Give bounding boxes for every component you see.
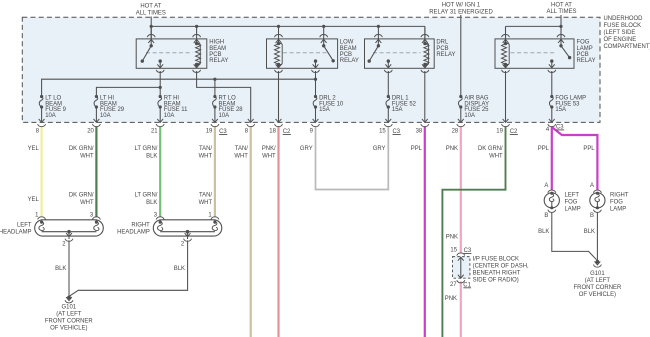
svg-text:19: 19 — [496, 129, 503, 135]
svg-text:UNDERHOOD: UNDERHOOD — [604, 16, 643, 22]
wire: DRL relay output drop to DRL 1 fuse — [387, 71, 389, 97]
svg-text:HOT AT: HOT AT — [140, 3, 161, 9]
connector pin 15 C3 at fuse block bottom — [379, 119, 401, 135]
svg-text:YEL: YEL — [28, 146, 40, 152]
wire DK GRN/WHT pin 19 C2 with jog (to page bottom) — [442, 126, 505, 337]
wire PNK/WHT pin 18 (to page bottom) — [277, 126, 279, 337]
svg-text:WHT: WHT — [489, 153, 503, 159]
label: left headlamp name — [0, 223, 32, 236]
svg-text:2: 2 — [181, 242, 184, 248]
svg-text:HEADLAMP: HEADLAMP — [0, 230, 32, 236]
label: DRL 2 fuse 10 value — [319, 95, 344, 113]
svg-text:PNK: PNK — [446, 234, 458, 240]
label: right fog lamp name — [610, 192, 629, 212]
wire: feed from HOT W/ IGN 1 down to air bag fuse — [460, 15, 462, 97]
svg-text:FRONT CORNER: FRONT CORNER — [45, 319, 93, 325]
label: wire color DK GRN/ WHT (upper row) at x=505.5 — [478, 146, 503, 159]
fuse DRL 1 fuse 52 — [386, 95, 390, 123]
svg-text:DK GRN/: DK GRN/ — [478, 146, 503, 152]
connector pin 8 at fuse block bottom — [36, 119, 46, 135]
junction dot bus / low beam relay coil — [277, 25, 280, 28]
relay fog lamp PCB relay — [495, 26, 574, 72]
wire: low beam feed rail (LT LO fuse / RT LO fuse / low beam relay output) — [42, 79, 316, 96]
svg-text:15A: 15A — [392, 107, 403, 113]
svg-text:(LEFT SIDE: (LEFT SIDE — [604, 30, 636, 36]
svg-text:LT GRN/: LT GRN/ — [135, 193, 158, 199]
connector pin 9 at fuse block bottom — [310, 119, 320, 135]
svg-text:10A: 10A — [464, 113, 475, 119]
svg-text:I/P FUSE BLOCK: I/P FUSE BLOCK — [473, 256, 519, 262]
label: wire color LT GRN/ BLK (lower row) at x=160.2 — [135, 193, 158, 206]
wire: feed from HOT AT ALL TIMES (right) to fog lamp relay — [560, 15, 562, 45]
wire TAN/WHT pin 8 (to page bottom) — [250, 126, 252, 337]
svg-text:WHT: WHT — [199, 200, 213, 206]
svg-text:PPL: PPL — [583, 146, 595, 152]
svg-text:BLK: BLK — [146, 200, 157, 206]
fuse RT HI BEAM fuse 11 — [158, 95, 162, 123]
junction dot bus at left feed — [150, 25, 153, 28]
label: RT LO BEAM fuse 28 value — [219, 95, 244, 119]
svg-text:10A: 10A — [100, 113, 111, 119]
svg-text:10A: 10A — [164, 113, 175, 119]
label: wire color PPL (upper row) at x=551.8 — [538, 146, 550, 152]
wire: bus drop to DRL relay coil — [424, 26, 426, 43]
svg-text:A: A — [544, 183, 548, 189]
ground G101 (left front corner) — [65, 296, 73, 303]
svg-text:(AT LEFT: (AT LEFT — [585, 278, 611, 284]
wire GRY pin 9 joined with GRY pin 15 — [316, 126, 389, 189]
junction dot low beam relay output / rail — [314, 78, 317, 81]
right headlamp — [153, 212, 222, 247]
svg-text:RELAY: RELAY — [577, 58, 596, 64]
svg-text:27: 27 — [450, 282, 457, 288]
wire: high beam relay coil return jog to pin 8 — [197, 71, 251, 122]
wire: high beam feed rail (LT HI fuse to RT HI drop) — [96, 87, 160, 96]
wire PNK below I/P fuse block (to page bottom) — [460, 281, 462, 337]
label: DRL PCB relay name — [436, 40, 455, 58]
right fog lamp — [590, 183, 605, 219]
svg-text:SIDE OF RADIO): SIDE OF RADIO) — [473, 278, 519, 284]
svg-text:LT GRN/: LT GRN/ — [135, 146, 158, 152]
fuse LT LO BEAM fuse 9 — [39, 95, 43, 123]
svg-text:RELAY: RELAY — [209, 58, 228, 64]
svg-text:PPL: PPL — [538, 146, 550, 152]
label: AIR BAG DISPLAY fuse 25 value — [464, 95, 489, 119]
fuse RT LO BEAM fuse 28 — [213, 95, 217, 123]
label: wire color DK GRN/ WHT (lower row) at x=96.4 — [69, 193, 94, 206]
label: DRL 1 fuse 52 value — [392, 95, 416, 113]
svg-text:BLK: BLK — [174, 266, 185, 272]
svg-text:38: 38 — [416, 129, 423, 135]
svg-text:TAN/: TAN/ — [199, 193, 212, 199]
wire: feed from HOT AT ALL TIMES (left) into fuse block — [150, 17, 152, 46]
svg-text:15: 15 — [450, 248, 457, 254]
svg-text:WHT: WHT — [234, 153, 248, 159]
svg-text:18: 18 — [269, 129, 276, 135]
svg-text:WHT: WHT — [80, 200, 94, 206]
wire BLK right fog lamp to G101 — [596, 212, 598, 261]
svg-text:LAMP: LAMP — [610, 207, 626, 213]
wire: fog relay bus segment — [506, 25, 562, 27]
wire TAN/WHT pin 19 to right headlamp pin 1 — [214, 126, 216, 217]
label: wire color YEL (upper row) at x=41.6 — [28, 146, 40, 152]
svg-text:PNK/: PNK/ — [262, 146, 276, 152]
svg-text:FOG: FOG — [565, 199, 578, 205]
svg-text:2: 2 — [62, 242, 65, 248]
wire YEL pin 8 to left headlamp pin 1 — [40, 126, 42, 217]
svg-text:BENEATH RIGHT: BENEATH RIGHT — [473, 271, 521, 277]
left fog lamp — [544, 183, 559, 219]
connector pin 18 C2 at fuse block bottom — [269, 119, 291, 135]
fuse AIR BAG DISPLAY fuse 25 — [458, 95, 462, 123]
svg-text:OF VEHICLE): OF VEHICLE) — [579, 292, 616, 298]
svg-text:LAMP: LAMP — [565, 207, 581, 213]
power label HOT AT ALL TIMES (right) — [546, 2, 576, 15]
svg-text:TAN/: TAN/ — [235, 146, 248, 152]
power label HOT W/ IGN 1 RELAY 31 ENERGIZED — [429, 3, 492, 16]
wire BLK left fog lamp to G101 — [552, 212, 597, 260]
label: wire color TAN/ WHT (upper row) at x=250.7 — [234, 146, 248, 159]
wire LT GRN/BLK pin 21 to right headlamp pin 3 — [159, 126, 161, 217]
svg-text:HEADLAMP: HEADLAMP — [117, 230, 150, 236]
label: low beam PCB relay name — [340, 40, 359, 64]
connector pin 27 C1 (I/P fuse block bottom) — [450, 282, 472, 289]
junction dot bus / DRL relay switch — [377, 25, 380, 28]
label: RT HI BEAM fuse 11 value — [164, 95, 188, 119]
svg-text:BLK: BLK — [538, 229, 549, 235]
connector pin 4 C3 at fuse block bottom — [546, 119, 564, 133]
wire: low beam relay coil return to pin 18 — [278, 71, 280, 122]
svg-text:G101: G101 — [590, 271, 605, 277]
label: wire color PNK/ WHT (upper row) at x=278.5 — [262, 146, 276, 159]
svg-text:28: 28 — [452, 129, 459, 135]
wire PPL pin 38 (to page bottom) — [424, 126, 426, 337]
svg-text:LEFT: LEFT — [17, 223, 32, 229]
wire BLK right headlamp pin 2 to G101 — [69, 240, 187, 296]
junction dot bus / high beam relay coil — [195, 25, 198, 28]
fuse DRL 2 fuse 10 — [313, 95, 317, 123]
svg-text:8: 8 — [36, 129, 40, 135]
svg-text:PNK: PNK — [446, 146, 458, 152]
svg-text:21: 21 — [151, 129, 158, 135]
svg-text:YEL: YEL — [28, 197, 40, 203]
label: wire color YEL (lower row) at x=41.6 — [28, 197, 40, 203]
svg-text:BLK: BLK — [584, 229, 595, 235]
svg-text:DK GRN/: DK GRN/ — [69, 193, 94, 199]
svg-text:OF VEHICLE): OF VEHICLE) — [50, 326, 87, 332]
svg-text:15A: 15A — [555, 107, 566, 113]
fuse LT HI BEAM fuse 29 — [94, 95, 98, 123]
label: right headlamp name — [117, 223, 150, 236]
svg-text:TAN/: TAN/ — [199, 146, 212, 152]
svg-text:RIGHT: RIGHT — [610, 192, 629, 198]
wire: RT LO fuse drop from rail — [214, 79, 216, 96]
svg-text:BLK: BLK — [55, 266, 66, 272]
label: fog lamp PCB relay name — [577, 40, 596, 64]
label: LT HI BEAM fuse 29 value — [100, 95, 125, 119]
svg-text:10A: 10A — [45, 113, 56, 119]
connector pin 8 at fuse block bottom — [245, 119, 255, 135]
connector pin 15 C3 (I/P fuse block top) — [450, 248, 471, 255]
svg-text:9: 9 — [310, 129, 314, 135]
junction dot RT LO fuse on low beam rail — [213, 78, 216, 81]
svg-text:RELAY: RELAY — [340, 58, 359, 64]
fuse FOG LAMP fuse 53 — [549, 95, 553, 123]
wire PPL branch to right fog lamp — [552, 127, 598, 190]
label: I/P FUSE BLOCK (CENTER OF DASH, BENEATH RIGHT SIDE OF RADIO) — [473, 256, 529, 283]
power label HOT AT ALL TIMES (left) — [136, 3, 166, 16]
svg-text:ALL TIMES: ALL TIMES — [546, 9, 576, 15]
wire: B+ bus across relays — [151, 25, 425, 27]
label: wire color PPL (upper row) at x=597.4 — [583, 146, 595, 152]
svg-text:COMPARTMENT): COMPARTMENT) — [604, 44, 650, 50]
svg-text:4: 4 — [546, 127, 550, 133]
svg-text:DK GRN/: DK GRN/ — [69, 146, 94, 152]
relay DRL PCB relay — [365, 26, 435, 72]
label: wire color PNK (upper row) at x=460.8 — [446, 146, 458, 152]
svg-text:FUSE BLOCK: FUSE BLOCK — [604, 23, 642, 29]
label: high beam PCB relay name — [209, 40, 228, 64]
svg-text:WHT: WHT — [80, 153, 94, 159]
label: UNDERHOOD FUSE BLOCK (LEFT SIDE OF ENGINE COMPARTMENT) — [604, 16, 650, 50]
wire: fog relay coil return to pin 19 — [505, 71, 507, 122]
svg-text:A: A — [590, 183, 594, 189]
svg-text:BLK: BLK — [146, 153, 157, 159]
underhood fuse block (dashed outline, light blue) — [22, 17, 600, 122]
svg-text:(CENTER OF DASH,: (CENTER OF DASH, — [473, 264, 529, 270]
wire PNK pin 28 to I/P fuse block — [460, 126, 462, 253]
connector pin 21 at fuse block bottom — [151, 119, 164, 135]
svg-text:15: 15 — [379, 129, 386, 135]
left headlamp — [35, 212, 104, 247]
svg-text:20: 20 — [87, 129, 94, 135]
svg-text:B: B — [544, 213, 548, 219]
connector pin 19 C2 at fuse block bottom — [496, 119, 518, 135]
svg-text:8: 8 — [245, 129, 249, 135]
label: G101 (AT LEFT FRONT CORNER OF VEHICLE) — [45, 305, 93, 332]
svg-text:LEFT: LEFT — [565, 192, 580, 198]
svg-text:RELAY 31 ENERGIZED: RELAY 31 ENERGIZED — [429, 9, 492, 15]
label: wire color GRY (upper row) at x=388.3 — [373, 146, 386, 152]
svg-text:19: 19 — [206, 129, 213, 135]
svg-text:(AT LEFT: (AT LEFT — [56, 312, 82, 318]
wire PPL pin 4 to left fog lamp — [551, 126, 553, 190]
wire BLK left headlamp pin 2 to G101 — [68, 240, 70, 296]
wire: fog relay output drop to fog lamp fuse — [551, 71, 553, 97]
label: wire color LT GRN/ BLK (upper row) at x=160.2 — [135, 146, 158, 159]
svg-text:FRONT CORNER: FRONT CORNER — [574, 285, 622, 291]
svg-text:HOT W/ IGN 1: HOT W/ IGN 1 — [442, 3, 481, 9]
svg-text:ALL TIMES: ALL TIMES — [136, 11, 166, 17]
I/P fuse block (dashed box) — [453, 253, 470, 283]
connector pin 38 at fuse block bottom — [416, 119, 429, 135]
svg-text:HOT AT: HOT AT — [551, 2, 572, 8]
wire DK GRN/WHT pin 20 to left headlamp pin 3 — [95, 126, 97, 217]
svg-text:10A: 10A — [219, 113, 230, 119]
label: wire color GRY (upper row) at x=315.5 — [300, 146, 313, 152]
svg-text:GRY: GRY — [373, 146, 386, 152]
wire: low beam relay output drop to DRL 2 fuse — [315, 71, 317, 97]
svg-text:RELAY: RELAY — [436, 52, 455, 58]
svg-text:WHT: WHT — [199, 153, 213, 159]
wire: DRL relay coil return to pin 38 — [424, 71, 426, 122]
svg-text:15A: 15A — [319, 107, 330, 113]
svg-text:RIGHT: RIGHT — [131, 223, 150, 229]
junction dot fog bus at right feed — [559, 25, 562, 28]
svg-text:OF ENGINE: OF ENGINE — [604, 37, 637, 43]
svg-text:GRY: GRY — [300, 146, 313, 152]
svg-text:FOG: FOG — [610, 199, 623, 205]
label: G101 (AT LEFT FRONT CORNER OF VEHICLE) right — [574, 271, 622, 298]
junction dot bus / low beam relay switch — [322, 25, 325, 28]
label: wire color TAN/ WHT (upper row) at x=214.9 — [199, 146, 213, 159]
label: wire color PPL (upper row) at x=424.8 — [411, 146, 423, 152]
svg-text:G101: G101 — [62, 305, 77, 311]
label: wire color DK GRN/ WHT (upper row) at x=96.4 — [69, 146, 94, 159]
svg-text:PPL: PPL — [411, 146, 423, 152]
svg-text:PNK: PNK — [445, 296, 457, 302]
label: left fog lamp name — [565, 192, 581, 212]
label: wire color TAN/ WHT (lower row) at x=214.9 — [199, 193, 213, 206]
svg-text:WHT: WHT — [262, 153, 276, 159]
svg-text:B: B — [590, 213, 594, 219]
wire: fog bus drop to coil — [505, 26, 507, 43]
label: LT LO BEAM fuse 9 value — [45, 95, 66, 119]
label: FOG LAMP fuse 53 value — [555, 95, 586, 113]
junction dot high beam output / rail — [159, 86, 162, 89]
wire: high beam relay output drop to RT HI fuse — [159, 71, 161, 97]
ground G101 (fog lamps) — [593, 260, 601, 267]
connector pin 28 at fuse block bottom — [452, 119, 465, 135]
relay high beam PCB relay — [136, 26, 207, 72]
relay low beam PCB relay — [267, 26, 338, 72]
connector pin 19 C3 at fuse block bottom — [206, 119, 228, 135]
connector pin 20 at fuse block bottom — [87, 119, 100, 135]
